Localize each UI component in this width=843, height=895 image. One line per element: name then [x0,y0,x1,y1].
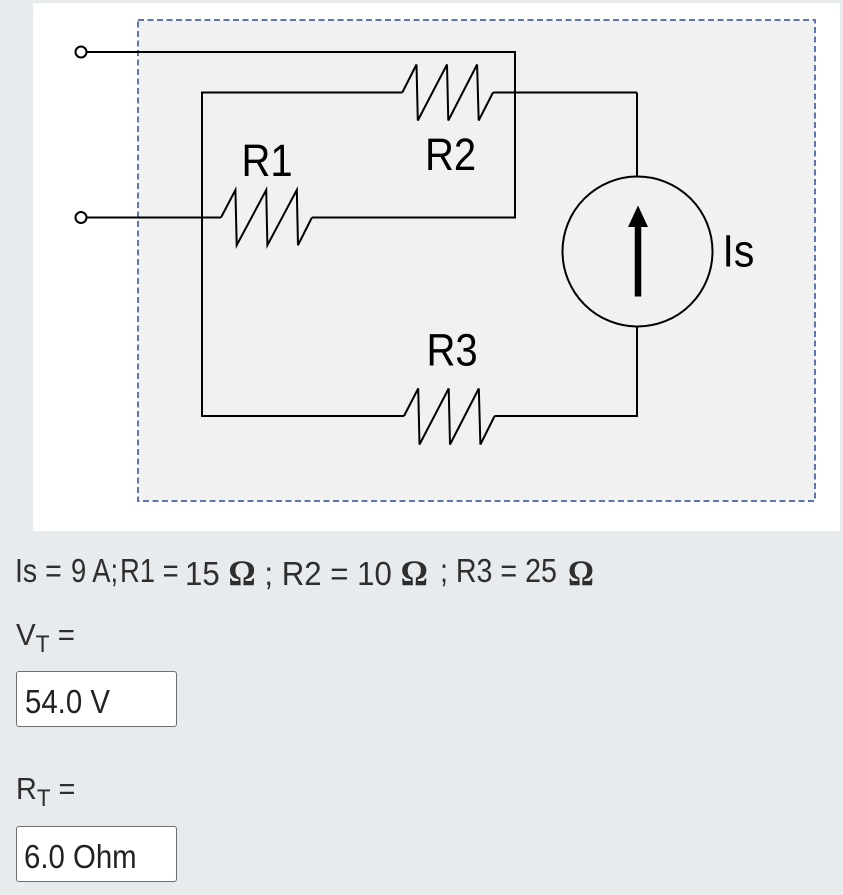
wire W9: current source bottom lead [636,326,638,417]
resistor R2 [402,65,493,121]
schematic boundary (dashed) [138,20,815,501]
given values text [0,552,843,594]
svg-text:R3: R3 [427,325,478,376]
svg-text:R2: R2 [425,130,476,181]
wire W3: T2 to R1 [87,217,222,219]
wire W11: bottom row left flat [201,415,404,417]
wire W4: R1 to right vertical [312,217,516,219]
wire W7: R2 to current source branch [493,92,637,94]
wire W5: left vertical [201,93,203,417]
wire W2: right vertical from top corner down to R1 row [514,51,516,218]
terminal T2 [76,212,87,223]
resistor R3 [404,389,495,445]
wire W10: bottom row right flat [495,415,638,417]
VT label [16,617,75,659]
current source Is [563,177,713,327]
wire W1: T1 to top-right corner [87,51,516,53]
svg-text:R1: R1 [242,136,293,187]
RT answer box [16,826,177,882]
svg-text:Is: Is [723,227,755,277]
terminal T1 [76,47,87,58]
wire W8: current source top lead [636,93,638,178]
wire W6: top row left flat to R2 [201,92,402,94]
RT label [16,771,75,813]
VT answer box [16,671,177,727]
resistor R1 [221,190,312,245]
